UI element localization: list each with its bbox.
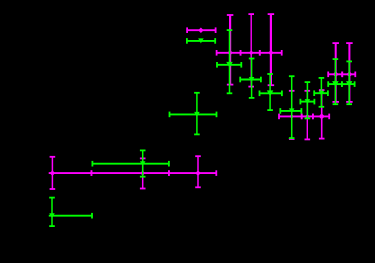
- green point G5: [280, 76, 301, 138]
- green point G8: [328, 59, 342, 104]
- magenta point M10: [49, 157, 92, 189]
- magenta point M3: [241, 14, 260, 87]
- green point G11: [92, 150, 168, 176]
- magenta point M4: [260, 14, 282, 85]
- magenta point M6: [302, 91, 313, 140]
- magenta point M7: [313, 90, 329, 139]
- green point G3: [240, 59, 261, 98]
- magenta point M11: [91, 158, 168, 188]
- green point G4: [260, 74, 282, 110]
- green point G1: [187, 38, 215, 44]
- green point G9: [342, 61, 355, 104]
- magenta point M2: [217, 15, 241, 85]
- magenta point M1: [187, 27, 216, 33]
- green point G6: [300, 82, 314, 118]
- green point G12: [49, 198, 92, 227]
- green point G2: [217, 30, 241, 93]
- magenta point M12: [169, 156, 216, 187]
- green point G10: [170, 93, 217, 135]
- magenta point M5: [279, 91, 302, 139]
- magenta point M9: [342, 43, 355, 102]
- magenta point M8: [328, 43, 342, 102]
- green point G7: [314, 78, 328, 107]
